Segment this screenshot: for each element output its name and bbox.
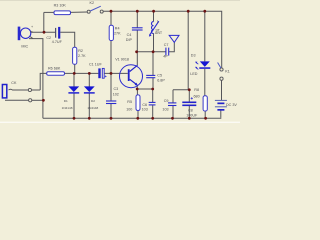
- svg-text:C8: C8: [188, 109, 193, 113]
- svg-text:C5: C5: [157, 74, 162, 78]
- svg-text:DIP: DIP: [126, 38, 133, 42]
- svg-text:LED: LED: [190, 72, 198, 76]
- svg-text:103: 103: [162, 108, 168, 112]
- svg-text:4P: 4P: [163, 55, 168, 59]
- svg-text:C6: C6: [142, 103, 147, 107]
- svg-text:CK: CK: [11, 81, 17, 85]
- svg-text:D1: D1: [64, 99, 68, 103]
- svg-text:R6 68K: R6 68K: [48, 66, 61, 70]
- svg-text:+: +: [31, 25, 33, 29]
- svg-text:V1 9018: V1 9018: [115, 58, 129, 62]
- svg-text:680: 680: [194, 95, 200, 99]
- svg-text:C1 1UF: C1 1UF: [89, 62, 102, 66]
- svg-text:L: L: [157, 20, 159, 24]
- svg-text:ANT: ANT: [155, 31, 163, 35]
- svg-text:R4: R4: [115, 26, 120, 30]
- svg-text:100UF: 100UF: [186, 113, 198, 117]
- svg-text:6.8P: 6.8P: [157, 79, 165, 83]
- svg-text:K2: K2: [90, 1, 95, 5]
- svg-text:K1: K1: [225, 70, 230, 74]
- svg-text:103: 103: [142, 108, 148, 112]
- svg-text:DC 3V: DC 3V: [226, 103, 237, 107]
- svg-text:R8: R8: [194, 88, 199, 92]
- svg-text:MIC: MIC: [21, 45, 28, 49]
- svg-text:C7: C7: [164, 43, 169, 47]
- svg-text:27K: 27K: [114, 32, 121, 36]
- svg-text:C3: C3: [114, 87, 119, 91]
- svg-text:D2: D2: [91, 99, 95, 103]
- svg-text:1N4148: 1N4148: [87, 106, 98, 110]
- svg-text:R3 10K: R3 10K: [54, 4, 67, 8]
- svg-text:C4: C4: [127, 33, 132, 37]
- svg-text:C2: C2: [46, 36, 51, 40]
- svg-text:C9: C9: [164, 99, 169, 103]
- svg-text:100: 100: [126, 107, 132, 111]
- svg-text:R2: R2: [78, 49, 83, 53]
- svg-text:2.7K: 2.7K: [78, 54, 86, 58]
- svg-text:R5: R5: [127, 100, 132, 104]
- svg-text:1N4148: 1N4148: [62, 106, 73, 110]
- svg-text:102: 102: [113, 92, 119, 96]
- svg-text:4.7UF: 4.7UF: [52, 40, 63, 44]
- svg-text:D3: D3: [191, 53, 196, 57]
